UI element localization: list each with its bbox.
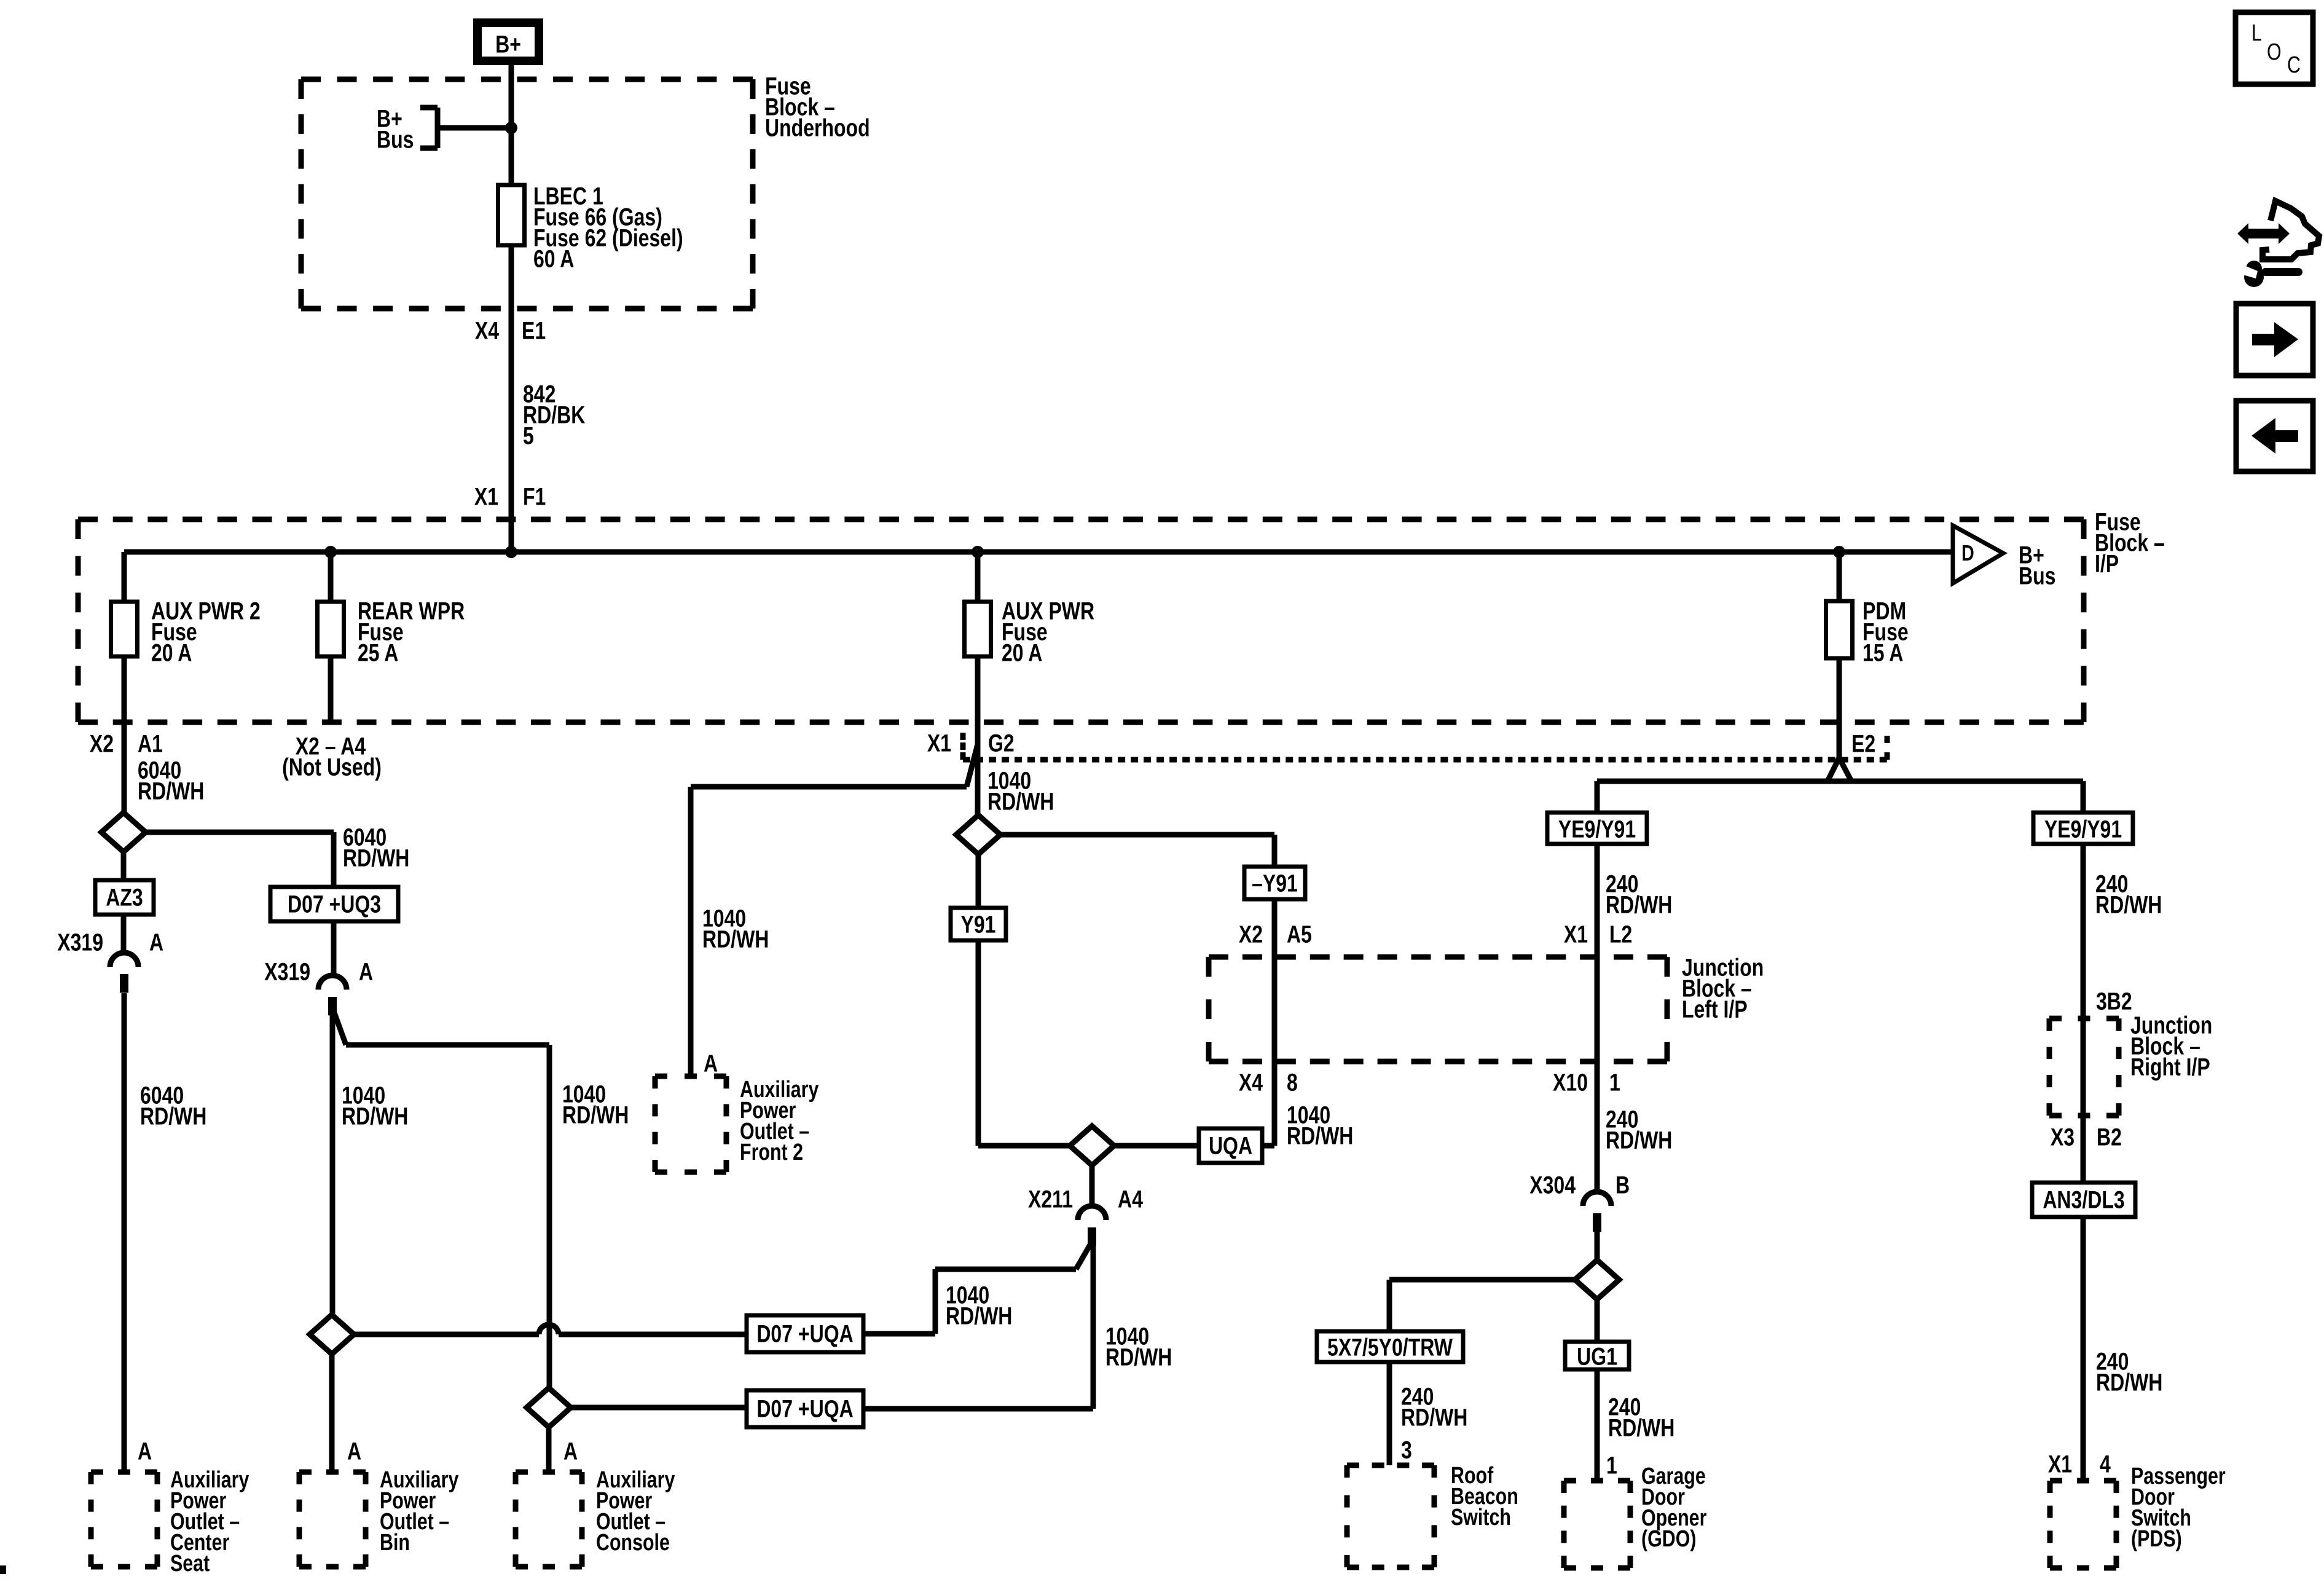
svg-text:YE9/Y91: YE9/Y91 (1558, 815, 1636, 843)
svg-text:Right I/P: Right I/P (2130, 1053, 2210, 1081)
svg-text:X1: X1 (474, 482, 498, 510)
svg-text:8: 8 (1287, 1068, 1298, 1096)
svg-text:RD/WH: RD/WH (2096, 1368, 2162, 1396)
svg-text:1: 1 (1609, 1068, 1620, 1096)
svg-text:RD/WH: RD/WH (140, 1102, 206, 1130)
svg-text:RD/WH: RD/WH (1105, 1343, 1172, 1371)
svg-text:60 A: 60 A (533, 245, 574, 272)
svg-text:X4: X4 (475, 317, 499, 344)
svg-text:D07 +UQA: D07 +UQA (756, 1395, 853, 1422)
svg-text:A1: A1 (138, 730, 163, 757)
svg-text:F1: F1 (523, 482, 546, 510)
svg-text:RD/WH: RD/WH (138, 777, 204, 805)
svg-text:25 A: 25 A (358, 639, 398, 666)
svg-text:(GDO): (GDO) (1641, 1526, 1696, 1552)
svg-text:1: 1 (1606, 1451, 1617, 1479)
svg-text:(PDS): (PDS) (2131, 1526, 2182, 1552)
svg-text:AZ3: AZ3 (106, 883, 143, 911)
svg-text:B+: B+ (495, 30, 521, 58)
svg-text:I/P: I/P (2095, 549, 2119, 577)
svg-text:5: 5 (523, 422, 534, 449)
svg-text:X1: X1 (2048, 1450, 2072, 1478)
svg-text:5X7/5Y0/TRW: 5X7/5Y0/TRW (1327, 1333, 1453, 1361)
svg-text:Bus: Bus (377, 125, 414, 153)
svg-text:Console: Console (596, 1530, 670, 1556)
svg-text:RD/WH: RD/WH (987, 787, 1054, 815)
svg-text:Switch: Switch (1451, 1505, 1511, 1530)
svg-text:RD/WH: RD/WH (1401, 1403, 1467, 1431)
svg-text:Underhood: Underhood (765, 114, 870, 141)
svg-text:X319: X319 (57, 928, 103, 956)
svg-text:3: 3 (1401, 1436, 1412, 1463)
svg-text:RD/WH: RD/WH (1608, 1414, 1674, 1441)
svg-text:O: O (2267, 39, 2282, 65)
svg-text:A: A (563, 1437, 578, 1465)
svg-text:RD/WH: RD/WH (343, 844, 409, 872)
svg-text:X10: X10 (1553, 1068, 1588, 1096)
svg-text:X1: X1 (1564, 920, 1588, 948)
svg-text:3B2: 3B2 (2096, 987, 2132, 1015)
svg-text:UQA: UQA (1209, 1132, 1252, 1159)
svg-text:X304: X304 (1529, 1171, 1576, 1199)
svg-text:X2: X2 (90, 730, 114, 757)
svg-text:Seat: Seat (170, 1551, 210, 1577)
svg-text:20 A: 20 A (151, 639, 192, 666)
svg-text:X4: X4 (1239, 1068, 1263, 1096)
svg-text:RD/WH: RD/WH (1606, 1126, 1672, 1154)
svg-text:E1: E1 (522, 317, 546, 344)
svg-text:RD/WH: RD/WH (1606, 891, 1672, 918)
svg-text:A4: A4 (1118, 1185, 1143, 1213)
svg-text:4: 4 (2100, 1450, 2111, 1478)
svg-text:D07 +UQA: D07 +UQA (756, 1320, 853, 1347)
svg-text:A: A (149, 928, 163, 956)
svg-text:Bus: Bus (2019, 562, 2055, 589)
svg-text:RD/WH: RD/WH (2095, 891, 2162, 918)
svg-text:20 A: 20 A (1002, 639, 1042, 666)
svg-text:X211: X211 (1028, 1185, 1073, 1213)
svg-text:L: L (2251, 20, 2262, 46)
svg-text:B2: B2 (2097, 1123, 2122, 1151)
svg-text:A: A (347, 1437, 361, 1465)
svg-text:D07 +UQ3: D07 +UQ3 (288, 890, 381, 918)
svg-text:A5: A5 (1287, 920, 1312, 948)
svg-text:RD/WH: RD/WH (702, 925, 769, 953)
svg-text:RD/WH: RD/WH (1287, 1122, 1353, 1149)
svg-text:Left I/P: Left I/P (1682, 995, 1748, 1023)
svg-text:(Not Used): (Not Used) (282, 753, 382, 781)
svg-text:A: A (138, 1437, 152, 1465)
svg-text:X3: X3 (2051, 1123, 2075, 1151)
svg-text:G2: G2 (988, 729, 1015, 757)
svg-text:C: C (2287, 52, 2301, 78)
svg-text:D: D (1961, 540, 1974, 565)
svg-text:Bin: Bin (380, 1530, 410, 1556)
svg-text:RD/WH: RD/WH (946, 1302, 1012, 1329)
svg-text:Front 2: Front 2 (740, 1140, 803, 1165)
svg-text:X1: X1 (927, 729, 951, 757)
svg-text:UG1: UG1 (1577, 1342, 1617, 1370)
svg-text:RD/WH: RD/WH (562, 1101, 629, 1128)
svg-text:X319: X319 (264, 958, 310, 985)
svg-text:RD/WH: RD/WH (342, 1102, 408, 1130)
svg-text:E2: E2 (1851, 730, 1875, 757)
svg-text:–Y91: –Y91 (1252, 869, 1298, 897)
svg-text:A: A (704, 1049, 718, 1077)
svg-text:A: A (359, 958, 373, 985)
svg-text:X2: X2 (1239, 920, 1263, 948)
svg-text:Y91: Y91 (961, 910, 996, 938)
svg-text:L2: L2 (1609, 920, 1632, 948)
svg-text:AN3/DL3: AN3/DL3 (2043, 1186, 2124, 1213)
svg-text:B: B (1615, 1171, 1630, 1199)
svg-text:15 A: 15 A (1863, 639, 1903, 666)
svg-text:YE9/Y91: YE9/Y91 (2044, 815, 2122, 843)
